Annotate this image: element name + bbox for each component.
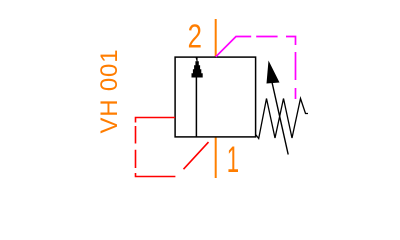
svg-text:2: 2 <box>188 19 202 56</box>
flow arrow head (stepped) <box>191 57 202 78</box>
svg-text:1: 1 <box>227 139 239 180</box>
drain line (red) diagonal piece toward port 1 <box>184 142 209 169</box>
port line 2 (orange) <box>215 19 217 57</box>
valve body (square) <box>175 57 256 137</box>
port line 1 (orange) <box>215 137 217 178</box>
flow arrow shaft (inside valve) <box>195 74 197 137</box>
drain line (red dashed): from valve left side, around, toward port 1 <box>136 118 176 177</box>
spring (zigzag) <box>256 99 308 139</box>
adjustment arrow shaft (crosses spring) <box>272 80 289 155</box>
adjustment arrow head <box>267 61 280 84</box>
pilot line (magenta dashed): diagonal from port 2, top run, drop to spring <box>216 37 296 100</box>
svg-text:VH 001: VH 001 <box>96 49 123 134</box>
